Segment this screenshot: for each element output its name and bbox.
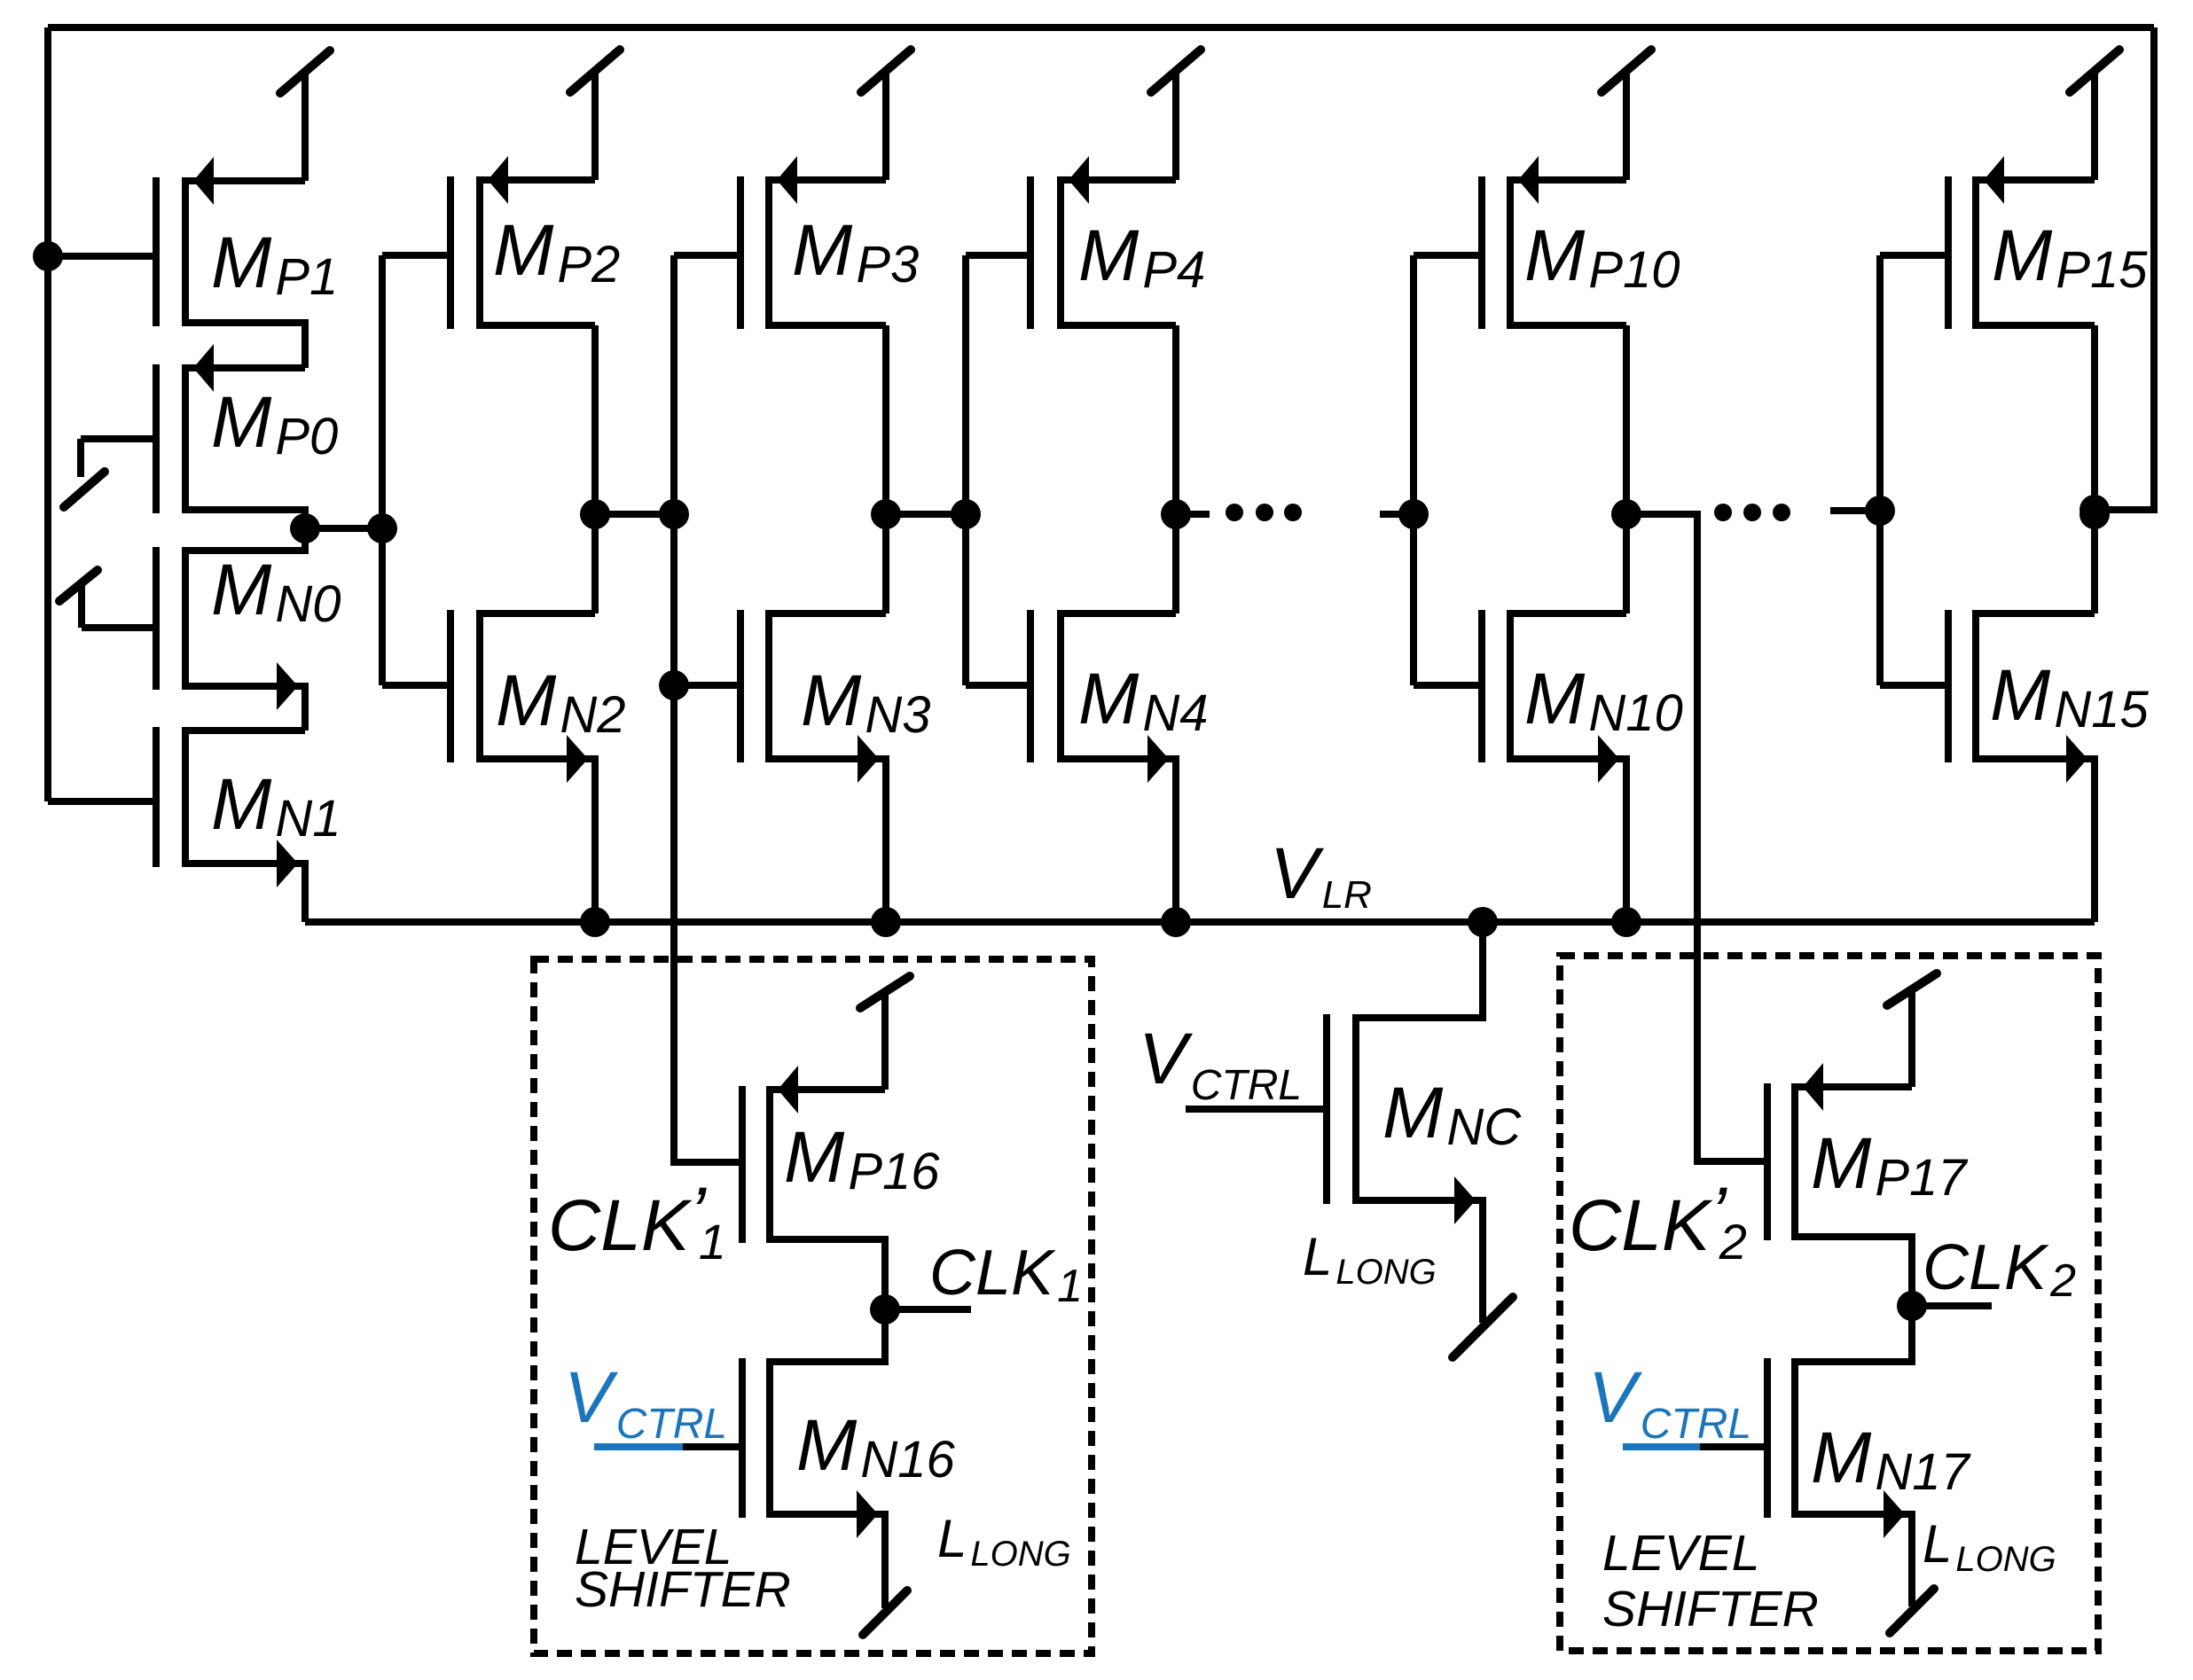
power VDD tick of MP15 (2070, 50, 2119, 180)
tick on MN0 gate stub (59, 570, 98, 601)
transistor MN17 source lead + arrow (1795, 1490, 1912, 1606)
svg-text:CLK2: CLK2 (1923, 1232, 2076, 1307)
transistor MN10 source lead + arrow (1510, 735, 1626, 922)
transistor MP3 gate lead (674, 252, 740, 259)
svg-text:MNC: MNC (1382, 1073, 1522, 1156)
label MN4 (1078, 659, 1208, 742)
transistor MP10 (PMOS, gate bar) (1478, 176, 1485, 329)
transistor MP10 source lead + arrow (1510, 156, 1626, 204)
wire VLR rail (305, 918, 2095, 926)
transistor MP15 source lead + arrow (1976, 156, 2095, 204)
transistor MP2 (channel bar) (476, 176, 483, 329)
wire CLK1 lead (885, 1306, 971, 1313)
label MP3 (792, 210, 919, 293)
transistor MN3 gate lead (674, 682, 740, 689)
wire stub into stage10 gate (1380, 511, 1414, 518)
wire MP2 drain to MN2 drain (591, 325, 599, 613)
transistor MNC source lead + arrow (1356, 1176, 1483, 1323)
wire MP3 drain to MN3 drain (882, 325, 889, 613)
power VDD tick of MP1 (280, 51, 330, 181)
node output of stage 15 (2079, 499, 2110, 529)
svg-text:MP4: MP4 (1078, 215, 1205, 299)
transistor MP0 (PMOS, gate bar) (153, 364, 160, 513)
svg-text:MN0: MN0 (211, 550, 341, 633)
node stage15 gate junction (1865, 496, 1895, 526)
transistor MNC drain lead (1356, 922, 1483, 1018)
wire mirror node to MP2 gate column (305, 525, 382, 532)
wire CLK2 lead (1912, 1302, 1992, 1309)
ellipsis dots (stages 5..9) (1226, 504, 1302, 521)
transistor MP3 (PMOS, gate bar) (737, 176, 744, 329)
svg-text:LEVEL: LEVEL (1602, 1525, 1759, 1582)
label CLK1 (929, 1238, 1083, 1312)
svg-text:MN1: MN1 (211, 764, 341, 848)
svg-text:LLONG: LLONG (1303, 1227, 1437, 1292)
label VLR (1270, 833, 1372, 917)
wire CLK'2 tap from stage10 output down to MP17 gate (1626, 514, 1767, 1161)
wire stub into stage15 gate (1830, 507, 1880, 514)
wire right border (top rail down to MP15 drain) (2095, 27, 2154, 510)
svg-text:LLONG: LLONG (1923, 1514, 2056, 1579)
label VCTRL (blue) of MN17 (1588, 1357, 1751, 1448)
node MN2 source on rail (580, 907, 610, 937)
ground tick of MN16 (863, 1590, 907, 1635)
label MP10 (1524, 215, 1680, 299)
svg-text:VLR: VLR (1270, 833, 1372, 917)
transistor MP17 (channel bar) (1791, 1083, 1798, 1240)
label MP16 (784, 1117, 940, 1200)
svg-text:MP10: MP10 (1524, 215, 1680, 299)
label LLONG of MNC (1303, 1227, 1437, 1292)
wire MP3/MN3 gate column + CLK'1 tap down to MP16 gate (674, 255, 742, 1162)
transistor MN10 gate lead (1414, 682, 1482, 689)
ground tick of MNC (1453, 1297, 1513, 1357)
transistor MN1 (channel bar) (182, 727, 189, 867)
transistor MN10 (channel bar) (1507, 610, 1514, 762)
svg-text:MN2: MN2 (496, 660, 625, 744)
node output of stage 10 (1611, 499, 1641, 529)
transistor MN1 source lead + arrow (185, 840, 305, 922)
transistor MP16 drain lead (770, 1239, 885, 1309)
wire MP2/MN2 gate column (379, 255, 386, 685)
transistor MN10 (NMOS, gate bar) (1478, 610, 1485, 762)
transistor MP1 (PMOS, gate bar) (153, 177, 160, 326)
wire stage3 output to stage4 gate (886, 511, 966, 518)
wire left border (MP15 output to MP1/MN1 gates) (44, 27, 51, 801)
label LEVEL SHIFTER 1 (575, 1519, 791, 1618)
wire stage2 output to stage3 gate (595, 511, 674, 518)
svg-text:MP1: MP1 (211, 223, 338, 306)
svg-text:MN4: MN4 (1078, 659, 1208, 742)
transistor MP0 (channel bar) (182, 364, 189, 513)
label VCTRL of MNC (1139, 1019, 1302, 1109)
wire MP4 drain to MN4 drain (1172, 325, 1179, 613)
label MP2 (493, 210, 620, 293)
transistor MN15 (NMOS, gate bar) (1945, 610, 1952, 762)
svg-text:MP3: MP3 (792, 210, 919, 293)
node MN10 source on rail (1611, 907, 1641, 937)
transistor MN2 (channel bar) (476, 610, 483, 762)
transistor MP17 source lead + arrow (1795, 1063, 1912, 1111)
svg-text:MP15: MP15 (1992, 215, 2148, 299)
level shifter 1 box (534, 959, 1092, 1653)
transistor MP2 drain lead (480, 322, 595, 329)
transistor MN4 source lead + arrow (1061, 735, 1176, 922)
power VDD tick of MP16 (860, 976, 910, 1090)
power VDD tick of MP10 (1602, 50, 1651, 180)
svg-text:VCTRL: VCTRL (1139, 1019, 1302, 1109)
node stage2 output to gate column (659, 499, 689, 529)
transistor MN3 (NMOS, gate bar) (737, 610, 744, 762)
label MP0 (211, 382, 338, 465)
transistor MN2 drain lead (480, 610, 595, 617)
transistor MN16 source lead + arrow (770, 1490, 885, 1608)
label CLK'1 (548, 1173, 726, 1270)
svg-text:SHIFTER: SHIFTER (1602, 1581, 1819, 1637)
power VDD tick of MP2 (570, 50, 620, 180)
label MP17 (1811, 1123, 1969, 1207)
transistor MN0 (channel bar) (182, 547, 189, 690)
svg-text:MN17: MN17 (1811, 1418, 1971, 1501)
svg-text:LLONG: LLONG (937, 1509, 1071, 1574)
svg-text:MP0: MP0 (211, 382, 338, 465)
transistor MP1 drain lead (185, 323, 305, 368)
node MP15 drain / feedback junction (2079, 495, 2110, 525)
label MN1 (211, 764, 341, 848)
transistor MN0 gate lead + stub (82, 585, 156, 628)
transistor MN3 (channel bar) (765, 610, 772, 762)
label LLONG of MN16 (937, 1509, 1071, 1574)
power VDD tick of MP17 (1887, 973, 1937, 1087)
node left mirror node A (290, 513, 320, 543)
transistor MN16 (NMOS, gate bar) (739, 1358, 746, 1518)
label CLK2 (1923, 1232, 2076, 1307)
svg-text:MN10: MN10 (1524, 659, 1683, 742)
transistor MN15 source lead + arrow (1976, 735, 2095, 922)
svg-text:MN15: MN15 (1990, 655, 2149, 738)
node stage10 gate junction (1398, 499, 1429, 529)
transistor MP0 drain lead (185, 510, 305, 528)
transistor MN4 drain lead (1061, 610, 1176, 617)
node output of stage 3 (871, 499, 901, 529)
label MN16 (796, 1405, 955, 1489)
wire MP15/MN15 gate column (1876, 255, 1884, 685)
label LEVEL SHIFTER 2 (1602, 1525, 1819, 1637)
level shifter 2 box (1560, 956, 2098, 1651)
label MN10 (1524, 659, 1683, 742)
node output of stage 2 (580, 499, 610, 529)
label LLONG of MN17 (1923, 1514, 2056, 1579)
transistor MP16 (PMOS, gate bar) (739, 1086, 746, 1243)
svg-text:CLK’1: CLK’1 (548, 1173, 726, 1270)
transistor MP15 (PMOS, gate bar) (1945, 176, 1952, 329)
transistor MN0 drain lead (185, 528, 305, 551)
transistor MN3 drain lead (769, 610, 886, 617)
transistor MP2 (PMOS, gate bar) (447, 176, 454, 329)
transistor MN4 (channel bar) (1057, 610, 1064, 762)
transistor MN3 source lead + arrow (769, 735, 886, 922)
label VCTRL (blue) of MN16 (564, 1357, 727, 1448)
ground tick of MN17 (1890, 1589, 1934, 1633)
node MNC drain on rail (1468, 907, 1498, 937)
transistor MP2 gate lead (382, 252, 450, 259)
label MN17 (1811, 1418, 1971, 1501)
transistor MP1 source lead + arrow (185, 157, 305, 205)
power VDD tick of MP3 (861, 50, 911, 180)
transistor MP4 (channel bar) (1057, 176, 1064, 329)
transistor MN15 gate lead (1880, 682, 1948, 689)
transistor MN1 drain lead (185, 727, 305, 734)
transistor MP15 gate lead (1880, 252, 1948, 259)
transistor MN15 drain lead (1976, 610, 2095, 617)
node MN3 source on rail (871, 907, 901, 937)
node MN4 source on rail (1161, 907, 1191, 937)
transistor MN1 gate lead (48, 798, 156, 805)
transistor MNC gate lead (VCTRL underline) (1186, 1106, 1327, 1113)
transistor MN17 drain lead (1795, 1306, 1912, 1362)
transistor MP4 gate lead (966, 252, 1030, 259)
transistor MP17 (PMOS, gate bar) (1764, 1083, 1771, 1240)
wire MP4/MN4 gate column (962, 255, 969, 685)
svg-text:CLK’2: CLK’2 (1569, 1173, 1747, 1270)
node on MP2 gate column (367, 513, 397, 543)
transistor MN2 source lead + arrow (480, 735, 595, 922)
transistor MP10 drain lead (1510, 322, 1626, 329)
label MNC (1382, 1073, 1522, 1156)
transistor MN17 (channel bar) (1791, 1358, 1798, 1518)
transistor MP1 (channel bar) (182, 177, 189, 326)
transistor MN2 (NMOS, gate bar) (447, 610, 454, 762)
transistor MP16 (channel bar) (766, 1086, 773, 1243)
transistor MNC (NMOS, gate bar) (1323, 1014, 1330, 1204)
transistor MN0 (NMOS, gate bar) (153, 547, 160, 690)
transistor MNC (channel bar) (1352, 1014, 1359, 1204)
transistor MP15 drain lead (1976, 322, 2095, 329)
transistor MP2 source lead + arrow (480, 156, 595, 204)
svg-text:SHIFTER: SHIFTER (575, 1561, 791, 1618)
transistor MN16 gate lead (black part) (683, 1443, 742, 1450)
label MN15 (1990, 655, 2149, 738)
svg-text:MP17: MP17 (1811, 1123, 1969, 1207)
transistor MP4 source lead + arrow (1061, 156, 1176, 204)
transistor MP10 (channel bar) (1507, 176, 1514, 329)
transistor MP0 source lead + arrow (185, 344, 305, 392)
svg-text:MP16: MP16 (784, 1117, 940, 1200)
svg-text:MN16: MN16 (796, 1405, 955, 1489)
svg-text:MN3: MN3 (801, 660, 930, 744)
label CLK'2 (1569, 1173, 1747, 1270)
node CLK1 output (870, 1294, 900, 1324)
node MP1 gate junction (33, 241, 63, 271)
wire MP10 drain to MN10 drain (1623, 325, 1630, 613)
node output of stage 4 (1161, 499, 1191, 529)
transistor MN4 gate lead (966, 682, 1030, 689)
node MN3 gate junction (659, 670, 689, 700)
wire MP10/MN10 gate column (1410, 255, 1417, 685)
transistor MN16 drain lead (770, 1309, 885, 1362)
label MN3 (801, 660, 930, 744)
transistor MP4 (PMOS, gate bar) (1027, 176, 1034, 329)
transistor MP4 drain lead (1061, 322, 1176, 329)
svg-text:VCTRL: VCTRL (564, 1357, 727, 1448)
label MN2 (496, 660, 625, 744)
power VDD tick of MP4 (1151, 50, 1201, 180)
transistor MP15 (channel bar) (1972, 176, 1979, 329)
svg-text:CLK1: CLK1 (929, 1238, 1083, 1312)
wire MP15 drain to MN15 drain (2091, 325, 2098, 613)
label MN0 (211, 550, 341, 633)
transistor MN17 (NMOS, gate bar) (1764, 1358, 1771, 1518)
wire top feedback rail (48, 24, 2154, 31)
tick on MP0 gate stub (64, 472, 105, 507)
transistor MN10 drain lead (1510, 610, 1626, 617)
transistor MP16 source lead + arrow (770, 1066, 885, 1113)
svg-text:VCTRL: VCTRL (1588, 1357, 1751, 1448)
transistor MP0 gate lead + stub (81, 439, 156, 477)
transistor MN1 (NMOS, gate bar) (153, 727, 160, 867)
transistor MN17 gate lead (black part) (1700, 1443, 1767, 1450)
transistor MN15 (channel bar) (1972, 610, 1979, 762)
transistor MN2 gate lead (382, 682, 450, 689)
transistor MP3 source lead + arrow (769, 156, 886, 204)
wire stub out of stage4 output (1176, 511, 1210, 518)
transistor MN0 source lead + arrow (185, 662, 305, 731)
transistor MN4 (NMOS, gate bar) (1027, 610, 1034, 762)
transistor MP1 gate lead (48, 253, 156, 260)
svg-text:MP2: MP2 (493, 210, 620, 293)
transistor MN16 (channel bar) (766, 1358, 773, 1518)
transistor MP17 drain lead (1795, 1237, 1912, 1306)
label MP15 (1992, 215, 2148, 299)
label MP4 (1078, 215, 1205, 299)
node stage4 gate junction (951, 499, 981, 529)
label MP1 (211, 223, 338, 306)
transistor MP10 gate lead (1414, 252, 1482, 259)
node CLK2 output (1897, 1291, 1927, 1321)
ellipsis dots (stages 11..14) (1714, 504, 1790, 521)
transistor MP3 drain lead (769, 322, 886, 329)
transistor MP3 (channel bar) (765, 176, 772, 329)
